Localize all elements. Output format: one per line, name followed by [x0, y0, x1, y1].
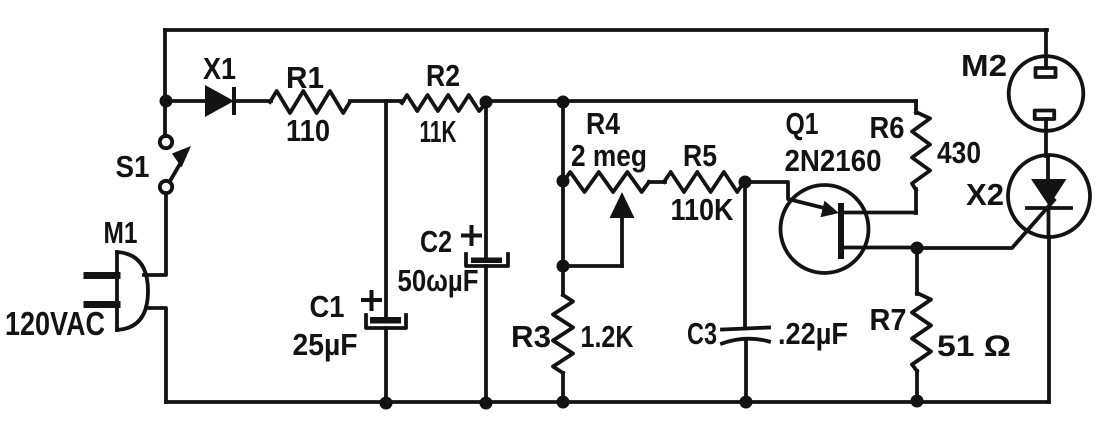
wire diode to R1: [236, 99, 271, 103]
node junction C1 bottom: [380, 397, 393, 410]
node junction at R4 branch top: [557, 96, 570, 109]
svg-text:M2: M2: [961, 48, 1007, 83]
svg-text:1.2K: 1.2K: [581, 319, 634, 354]
svg-text:R1: R1: [286, 60, 324, 95]
node junction at diode anode: [160, 95, 173, 108]
svg-text:2 meg: 2 meg: [571, 138, 647, 173]
svg-text:2N2160: 2N2160: [785, 143, 882, 178]
svg-text:C3: C3: [687, 316, 717, 351]
svg-text:M1: M1: [104, 215, 138, 250]
svg-text:.22µF: .22µF: [778, 316, 848, 351]
resistor R2: [402, 95, 489, 111]
svg-text:C1: C1: [310, 289, 345, 324]
resistor R7: [912, 293, 931, 371]
resistor R6: [912, 112, 930, 190]
wire R4 to R5: [649, 180, 665, 184]
svg-text:C2: C2: [420, 224, 452, 259]
wire junction down to R7: [915, 248, 919, 294]
wire top rail segment to R6 drop: [563, 99, 916, 103]
plug M1: [87, 252, 148, 330]
wire wiper branch: [563, 264, 622, 268]
wire R4/R3 branch vertical: [561, 101, 565, 295]
wire R2 junction to next junction: [486, 99, 563, 103]
diode X1: [205, 85, 234, 117]
svg-text:430: 430: [937, 135, 981, 170]
wire top rail: [165, 28, 1047, 32]
SCR X2: [1008, 155, 1090, 237]
wire R1 to R2: [350, 99, 403, 103]
wire C3 to bottom rail: [744, 341, 748, 402]
node junction R3 bottom: [557, 396, 570, 409]
node junction C2 bottom: [480, 397, 493, 410]
resistor R1: [270, 91, 350, 113]
svg-text:X1: X1: [203, 51, 236, 86]
wire C2 to bottom rail: [484, 266, 488, 403]
wire X2 cathode to bottom rail: [1047, 237, 1051, 402]
wire emitter lead from R5 junction: [745, 182, 824, 208]
node junction C3 bottom: [740, 396, 753, 409]
motor M2: [1009, 56, 1084, 131]
capacitor C3: [722, 328, 769, 344]
svg-text:R6: R6: [870, 110, 905, 145]
svg-text:R7: R7: [870, 302, 907, 337]
wire switch to plug upper terminal: [144, 193, 166, 275]
resistor R3: [553, 295, 573, 373]
node junction wiper branch: [557, 260, 570, 273]
capacitor C1: [363, 292, 406, 328]
resistor R5: [664, 172, 744, 192]
svg-text:11K: 11K: [420, 114, 457, 149]
potentiometer R4: [563, 172, 649, 266]
node junction base1 / gate / R7: [911, 242, 924, 255]
wire R6 bottom to base2: [914, 189, 918, 213]
wire R6 drop from top rail: [914, 101, 918, 113]
transistor Q1 unijunction 2N2160: [781, 185, 918, 273]
svg-text:S1: S1: [116, 149, 150, 184]
wire M2 to X2: [1044, 119, 1048, 156]
wire plug lower terminal to bottom rail: [146, 308, 166, 402]
svg-text:R5: R5: [683, 138, 717, 173]
svg-text:50ωµF: 50ωµF: [398, 263, 479, 298]
wire R7 to bottom rail: [915, 371, 919, 401]
svg-text:R3: R3: [511, 319, 551, 354]
svg-text:25µF: 25µF: [293, 327, 358, 362]
svg-text:R2: R2: [426, 58, 460, 93]
node junction R5 right / emitter: [739, 176, 752, 189]
svg-text:R4: R4: [586, 106, 621, 141]
svg-text:Q1: Q1: [786, 106, 819, 141]
wire junction to diode: [166, 99, 206, 103]
wire C1 to bottom rail: [384, 328, 388, 403]
switch S1: [160, 136, 191, 193]
node junction R2 output: [480, 96, 493, 109]
svg-text:110: 110: [286, 113, 330, 148]
wire C3 branch vertical: [743, 182, 747, 327]
wire bottom rail: [166, 400, 1049, 404]
svg-text:120VAC: 120VAC: [5, 305, 105, 342]
capacitor C2: [463, 227, 508, 266]
wire C2 branch vertical: [484, 101, 488, 258]
svg-text:X2: X2: [966, 177, 1004, 212]
wire gate lead to X2: [917, 200, 1054, 248]
node junction R7 bottom: [911, 395, 924, 408]
node junction R4 left: [557, 175, 570, 188]
wire top rail down to M2: [1044, 30, 1048, 67]
svg-text:110K: 110K: [671, 192, 735, 227]
wire C1 branch vertical: [384, 101, 388, 317]
svg-text:51 Ω: 51 Ω: [937, 330, 1011, 363]
wire left vertical from top rail to switch: [163, 30, 167, 136]
wire R3 to bottom rail: [561, 373, 565, 402]
